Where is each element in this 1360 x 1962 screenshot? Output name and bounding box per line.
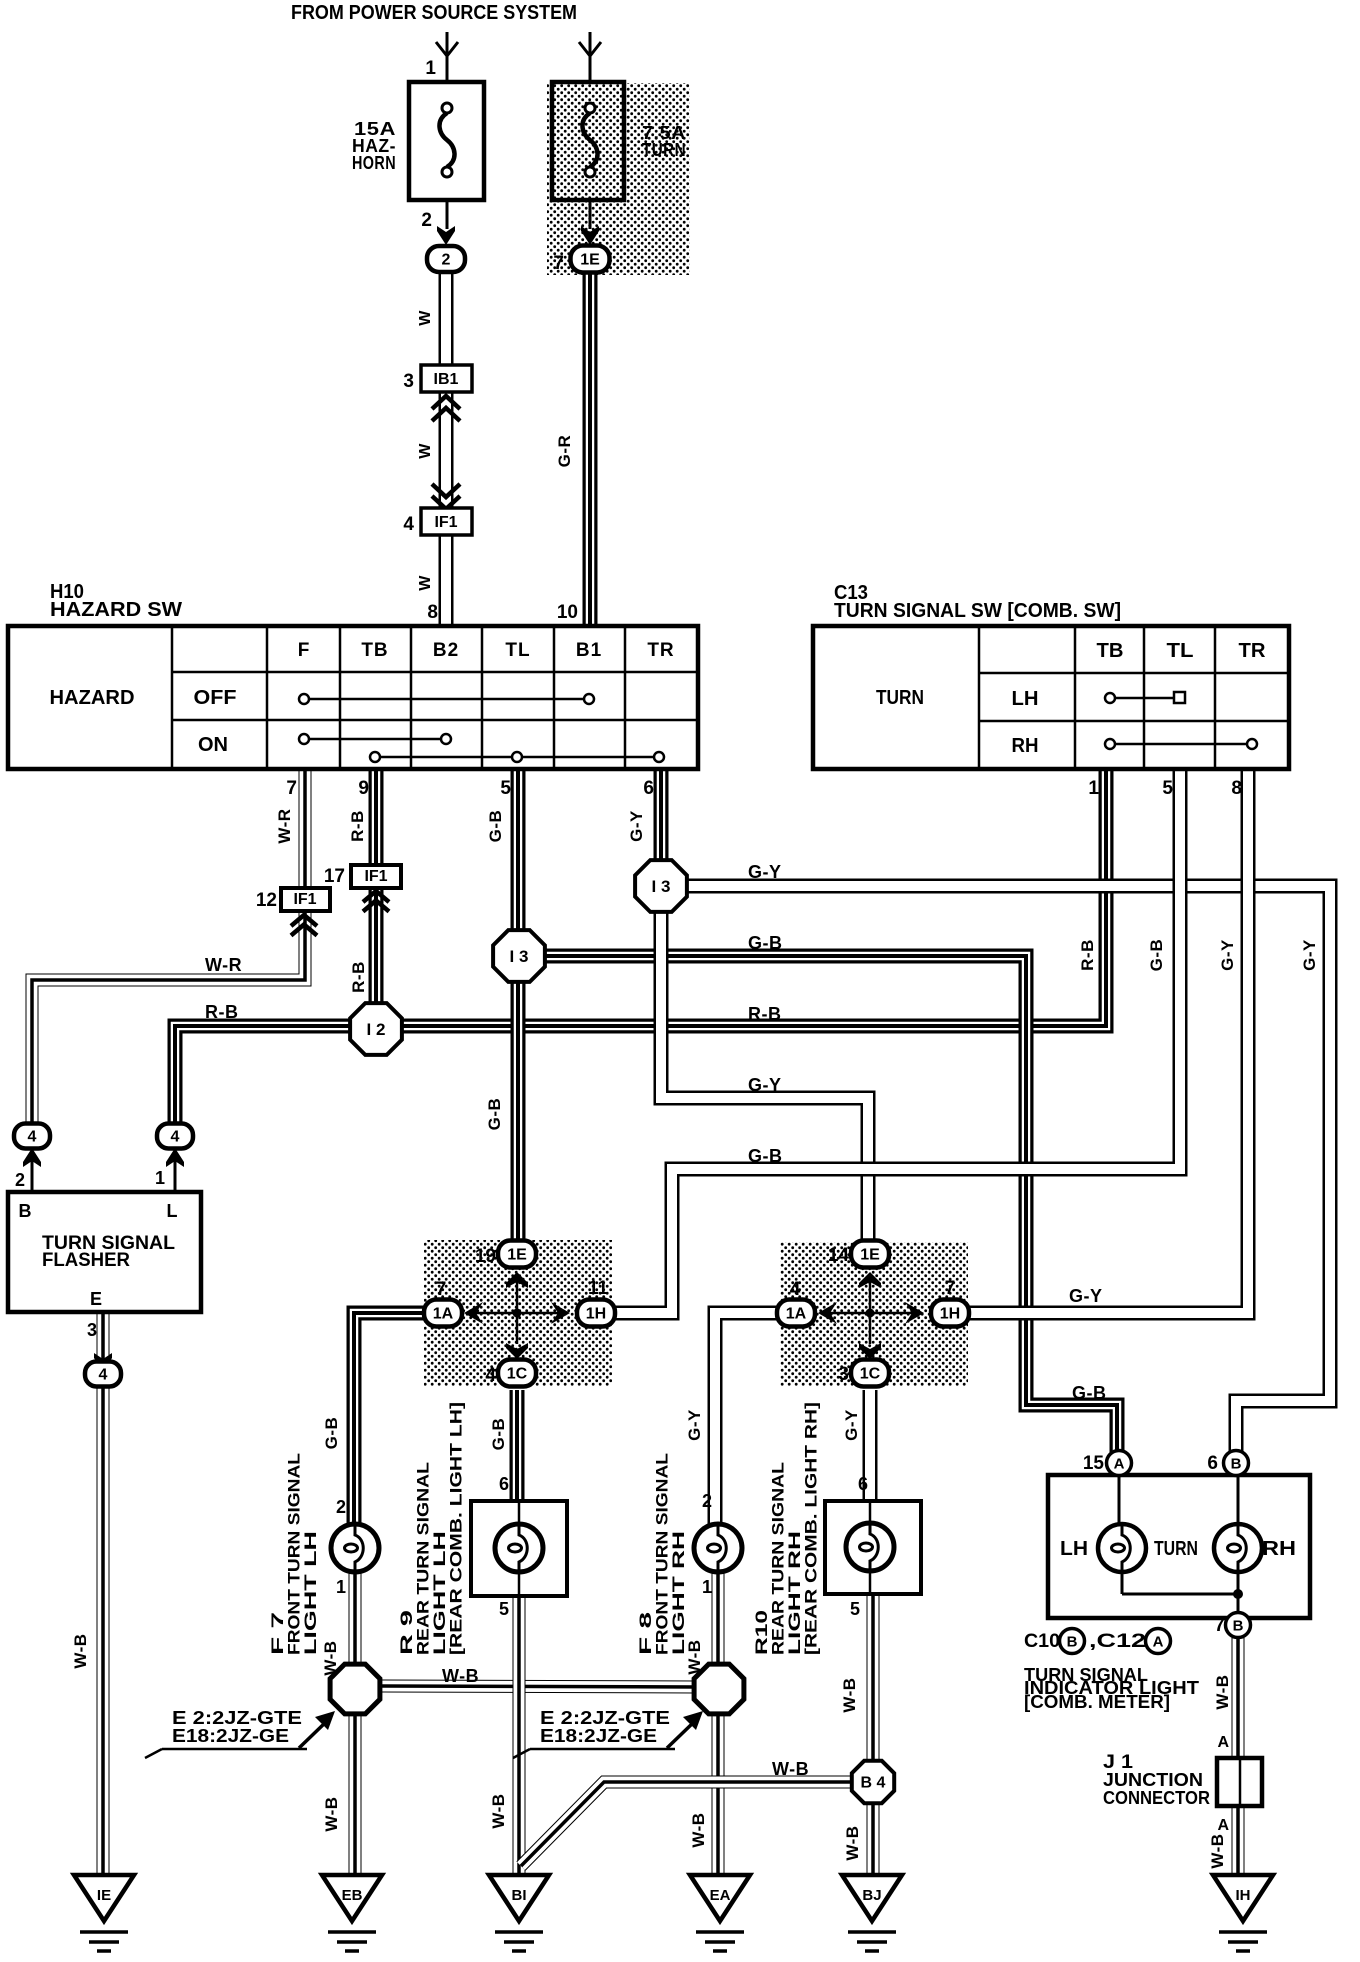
svg-text:TR: TR	[647, 640, 674, 661]
svg-text:IE: IE	[97, 1887, 111, 1904]
svg-text:G-B: G-B	[322, 1417, 341, 1450]
svg-text:4: 4	[28, 1129, 37, 1146]
svg-text:B: B	[1067, 1633, 1078, 1650]
svg-text:[COMB. METER]: [COMB. METER]	[1024, 1692, 1170, 1712]
svg-text:CONNECTOR: CONNECTOR	[1103, 1788, 1210, 1808]
svg-text:F: F	[298, 640, 311, 661]
svg-text:TL: TL	[505, 640, 530, 661]
svg-text:1A: 1A	[433, 1306, 454, 1323]
svg-text:2: 2	[336, 1497, 346, 1517]
svg-text:C10: C10	[1024, 1631, 1060, 1652]
svg-text:W-B: W-B	[772, 1759, 809, 1779]
svg-text:G-Y: G-Y	[842, 1409, 861, 1441]
svg-text:2: 2	[442, 252, 451, 269]
svg-text:1E: 1E	[507, 1247, 527, 1264]
svg-text:G-R: G-R	[555, 435, 574, 468]
svg-text:1: 1	[1088, 778, 1099, 799]
svg-text:E18:2JZ-GE: E18:2JZ-GE	[172, 1726, 289, 1746]
svg-text:2: 2	[702, 1491, 712, 1511]
svg-text:TR: TR	[1239, 640, 1267, 662]
svg-text:8: 8	[1231, 778, 1242, 799]
svg-text:3: 3	[87, 1320, 97, 1340]
svg-text:2: 2	[421, 210, 432, 231]
svg-text:A: A	[1217, 1817, 1229, 1834]
svg-text:W-B: W-B	[489, 1793, 508, 1828]
svg-text:12: 12	[256, 890, 277, 911]
svg-text:R-B: R-B	[205, 1002, 239, 1022]
svg-text:TURN: TURN	[1154, 1538, 1198, 1560]
svg-text:L: L	[167, 1201, 178, 1221]
svg-text:I 2: I 2	[367, 1020, 386, 1039]
svg-text:4: 4	[403, 514, 414, 535]
svg-text:IF1: IF1	[293, 891, 316, 908]
svg-text:RH: RH	[1012, 735, 1039, 757]
svg-text:TURN: TURN	[642, 140, 686, 160]
svg-text:IF1: IF1	[434, 514, 457, 531]
svg-text:6: 6	[643, 778, 654, 799]
svg-text:G-B: G-B	[1072, 1383, 1107, 1403]
svg-text:IF1: IF1	[364, 868, 387, 885]
svg-text:5: 5	[500, 778, 511, 799]
svg-text:JUNCTION: JUNCTION	[1103, 1770, 1203, 1790]
svg-text:TL: TL	[1167, 640, 1194, 662]
svg-text:[REAR COMB. LIGHT RH]: [REAR COMB. LIGHT RH]	[802, 1402, 821, 1655]
svg-text:G-Y: G-Y	[748, 862, 782, 882]
svg-text:,C12: ,C12	[1089, 1631, 1146, 1652]
svg-text:19: 19	[475, 1246, 496, 1267]
svg-text:HAZARD: HAZARD	[50, 687, 135, 709]
svg-text:5: 5	[499, 1599, 509, 1619]
svg-text:EA: EA	[710, 1887, 731, 1904]
svg-text:I 3: I 3	[652, 877, 671, 896]
svg-text:10: 10	[557, 602, 578, 623]
svg-text:TURN SIGNAL SW [COMB. SW]: TURN SIGNAL SW [COMB. SW]	[834, 600, 1121, 622]
svg-text:7: 7	[436, 1279, 447, 1300]
svg-text:G-Y: G-Y	[627, 810, 646, 842]
svg-text:1: 1	[336, 1577, 346, 1597]
svg-text:HORN: HORN	[352, 153, 396, 173]
svg-text:W-B: W-B	[322, 1796, 341, 1831]
svg-text:1H: 1H	[940, 1306, 960, 1323]
svg-text:B 4: B 4	[861, 1775, 886, 1792]
svg-text:17: 17	[324, 866, 345, 887]
svg-text:R-B: R-B	[1078, 939, 1097, 971]
svg-text:E: E	[90, 1289, 102, 1309]
svg-text:W-R: W-R	[275, 808, 294, 843]
svg-text:6: 6	[499, 1474, 509, 1494]
svg-text:G-Y: G-Y	[1069, 1286, 1103, 1306]
svg-text:W: W	[417, 310, 434, 326]
svg-text:TURN: TURN	[876, 687, 924, 709]
svg-text:G-B: G-B	[485, 1098, 504, 1131]
svg-text:TB: TB	[361, 640, 388, 661]
svg-text:3: 3	[403, 371, 414, 392]
svg-text:5: 5	[1162, 778, 1173, 799]
svg-text:LIGHT LH: LIGHT LH	[301, 1531, 320, 1655]
svg-text:EB: EB	[342, 1887, 363, 1904]
svg-text:G-Y: G-Y	[1218, 939, 1237, 971]
svg-text:W: W	[417, 575, 434, 591]
svg-text:W-B: W-B	[1213, 1674, 1232, 1709]
svg-text:W-R: W-R	[205, 955, 242, 975]
svg-text:W-B: W-B	[843, 1825, 862, 1860]
svg-text:TB: TB	[1097, 640, 1124, 662]
svg-text:FLASHER: FLASHER	[42, 1250, 130, 1271]
svg-text:9: 9	[358, 778, 369, 799]
svg-text:3: 3	[838, 1364, 849, 1385]
svg-text:W: W	[417, 443, 434, 459]
svg-text:A: A	[1114, 1455, 1125, 1472]
svg-text:R-B: R-B	[349, 961, 368, 993]
svg-text:G-B: G-B	[486, 810, 505, 843]
svg-text:E 2:2JZ-GTE: E 2:2JZ-GTE	[540, 1708, 670, 1728]
svg-text:BI: BI	[512, 1887, 527, 1904]
svg-text:5: 5	[850, 1599, 860, 1619]
svg-text:IH: IH	[1236, 1887, 1251, 1904]
svg-text:BJ: BJ	[862, 1887, 881, 1904]
svg-text:B: B	[1233, 1617, 1244, 1634]
svg-text:8: 8	[427, 602, 438, 623]
svg-text:W-B: W-B	[1208, 1833, 1227, 1868]
svg-text:LIGHT RH: LIGHT RH	[669, 1531, 688, 1655]
svg-text:G-B: G-B	[1147, 939, 1166, 972]
svg-text:11: 11	[588, 1278, 609, 1299]
svg-text:1E: 1E	[860, 1247, 880, 1264]
svg-text:15: 15	[1083, 1453, 1105, 1474]
svg-text:B: B	[1231, 1455, 1242, 1472]
svg-text:HAZARD SW: HAZARD SW	[50, 599, 182, 621]
svg-text:B: B	[19, 1201, 32, 1221]
svg-text:A: A	[1217, 1734, 1229, 1751]
svg-text:7: 7	[553, 253, 564, 274]
svg-text:1E: 1E	[580, 252, 600, 269]
svg-text:W-B: W-B	[71, 1633, 90, 1668]
svg-text:IB1: IB1	[434, 371, 459, 388]
svg-text:1: 1	[425, 58, 436, 79]
svg-text:G-Y: G-Y	[1300, 939, 1319, 971]
svg-text:6: 6	[858, 1474, 868, 1494]
svg-text:A: A	[1153, 1633, 1164, 1650]
svg-text:14: 14	[828, 1245, 850, 1266]
svg-text:G-Y: G-Y	[748, 1075, 782, 1095]
svg-text:4: 4	[790, 1279, 801, 1300]
svg-text:7: 7	[1214, 1615, 1225, 1636]
svg-text:E 2:2JZ-GTE: E 2:2JZ-GTE	[172, 1708, 302, 1728]
svg-text:W-B: W-B	[840, 1677, 859, 1712]
svg-text:W-B: W-B	[442, 1666, 479, 1686]
svg-text:G-Y: G-Y	[685, 1409, 704, 1441]
svg-text:B2: B2	[433, 640, 459, 661]
svg-text:1A: 1A	[786, 1306, 807, 1323]
svg-text:G-B: G-B	[748, 933, 783, 953]
svg-text:1: 1	[702, 1577, 712, 1597]
svg-text:ON: ON	[198, 734, 228, 756]
svg-text:G-B: G-B	[748, 1146, 783, 1166]
svg-text:RH: RH	[1262, 1538, 1296, 1560]
svg-text:I 3: I 3	[510, 947, 529, 966]
svg-text:E18:2JZ-GE: E18:2JZ-GE	[540, 1726, 657, 1746]
svg-text:2: 2	[15, 1170, 25, 1190]
svg-text:7: 7	[945, 1278, 956, 1299]
svg-text:FROM POWER SOURCE SYSTEM: FROM POWER SOURCE SYSTEM	[291, 2, 577, 24]
svg-text:B1: B1	[576, 640, 602, 661]
svg-text:LH: LH	[1012, 688, 1039, 710]
svg-text:LH: LH	[1060, 1538, 1088, 1560]
svg-text:1: 1	[155, 1168, 165, 1188]
svg-text:1C: 1C	[507, 1366, 528, 1383]
svg-text:G-B: G-B	[489, 1418, 508, 1451]
svg-text:1C: 1C	[860, 1366, 881, 1383]
svg-text:1H: 1H	[586, 1306, 606, 1323]
svg-text:[REAR COMB. LIGHT LH]: [REAR COMB. LIGHT LH]	[447, 1402, 466, 1655]
svg-text:6: 6	[1207, 1453, 1218, 1474]
svg-text:R-B: R-B	[748, 1004, 782, 1024]
svg-text:4: 4	[485, 1365, 496, 1386]
svg-text:4: 4	[171, 1129, 180, 1146]
svg-text:W-B: W-B	[321, 1640, 340, 1675]
svg-text:R-B: R-B	[348, 810, 367, 842]
svg-text:W-B: W-B	[689, 1812, 708, 1847]
svg-text:4: 4	[99, 1367, 108, 1384]
svg-text:7: 7	[286, 778, 297, 799]
svg-text:OFF: OFF	[194, 687, 237, 709]
